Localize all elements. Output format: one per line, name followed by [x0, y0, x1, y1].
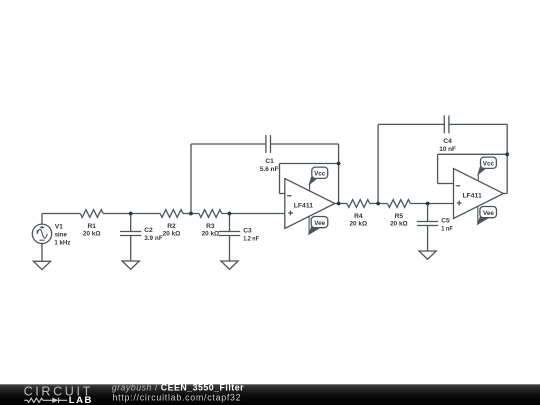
svg-text:20 kΩ: 20 kΩ — [83, 231, 101, 238]
svg-text:C1: C1 — [265, 158, 274, 165]
svg-text:20 kΩ: 20 kΩ — [350, 221, 368, 228]
svg-text:10 nF: 10 nF — [439, 146, 456, 153]
svg-text:V1: V1 — [55, 223, 63, 230]
svg-text:Vee: Vee — [314, 220, 325, 227]
svg-text:1.2 nF: 1.2 nF — [243, 235, 259, 242]
svg-text:R5: R5 — [395, 213, 404, 220]
svg-text:C4: C4 — [443, 138, 452, 145]
svg-text:C3: C3 — [243, 227, 252, 234]
svg-text:sine: sine — [55, 232, 68, 239]
svg-text:Vcc: Vcc — [483, 161, 495, 168]
svg-text:R2: R2 — [167, 223, 176, 230]
svg-text:5.6 nF: 5.6 nF — [260, 166, 279, 173]
svg-text:Vee: Vee — [483, 210, 494, 217]
svg-text:C2: C2 — [144, 227, 153, 234]
svg-text:R4: R4 — [354, 213, 363, 220]
svg-text:LAB: LAB — [69, 395, 93, 405]
svg-text:20 kΩ: 20 kΩ — [163, 231, 181, 238]
svg-text:Vcc: Vcc — [314, 171, 326, 178]
svg-text:R1: R1 — [87, 223, 96, 230]
svg-text:graybush / CEEN_3550_Filter: graybush / CEEN_3550_Filter — [112, 383, 244, 393]
svg-text:R3: R3 — [206, 223, 215, 230]
svg-text:LF411: LF411 — [294, 202, 313, 209]
svg-text:20 kΩ: 20 kΩ — [202, 231, 220, 238]
svg-text:1 kHz: 1 kHz — [54, 240, 71, 247]
svg-text:3.9 nF: 3.9 nF — [144, 235, 163, 242]
svg-text:C5: C5 — [441, 218, 450, 225]
svg-text:LF411: LF411 — [462, 192, 481, 199]
svg-text:20 kΩ: 20 kΩ — [390, 221, 408, 228]
svg-text:1 nF: 1 nF — [441, 225, 453, 232]
svg-text:http://circuitlab.com/ctapf32: http://circuitlab.com/ctapf32 — [113, 393, 242, 403]
